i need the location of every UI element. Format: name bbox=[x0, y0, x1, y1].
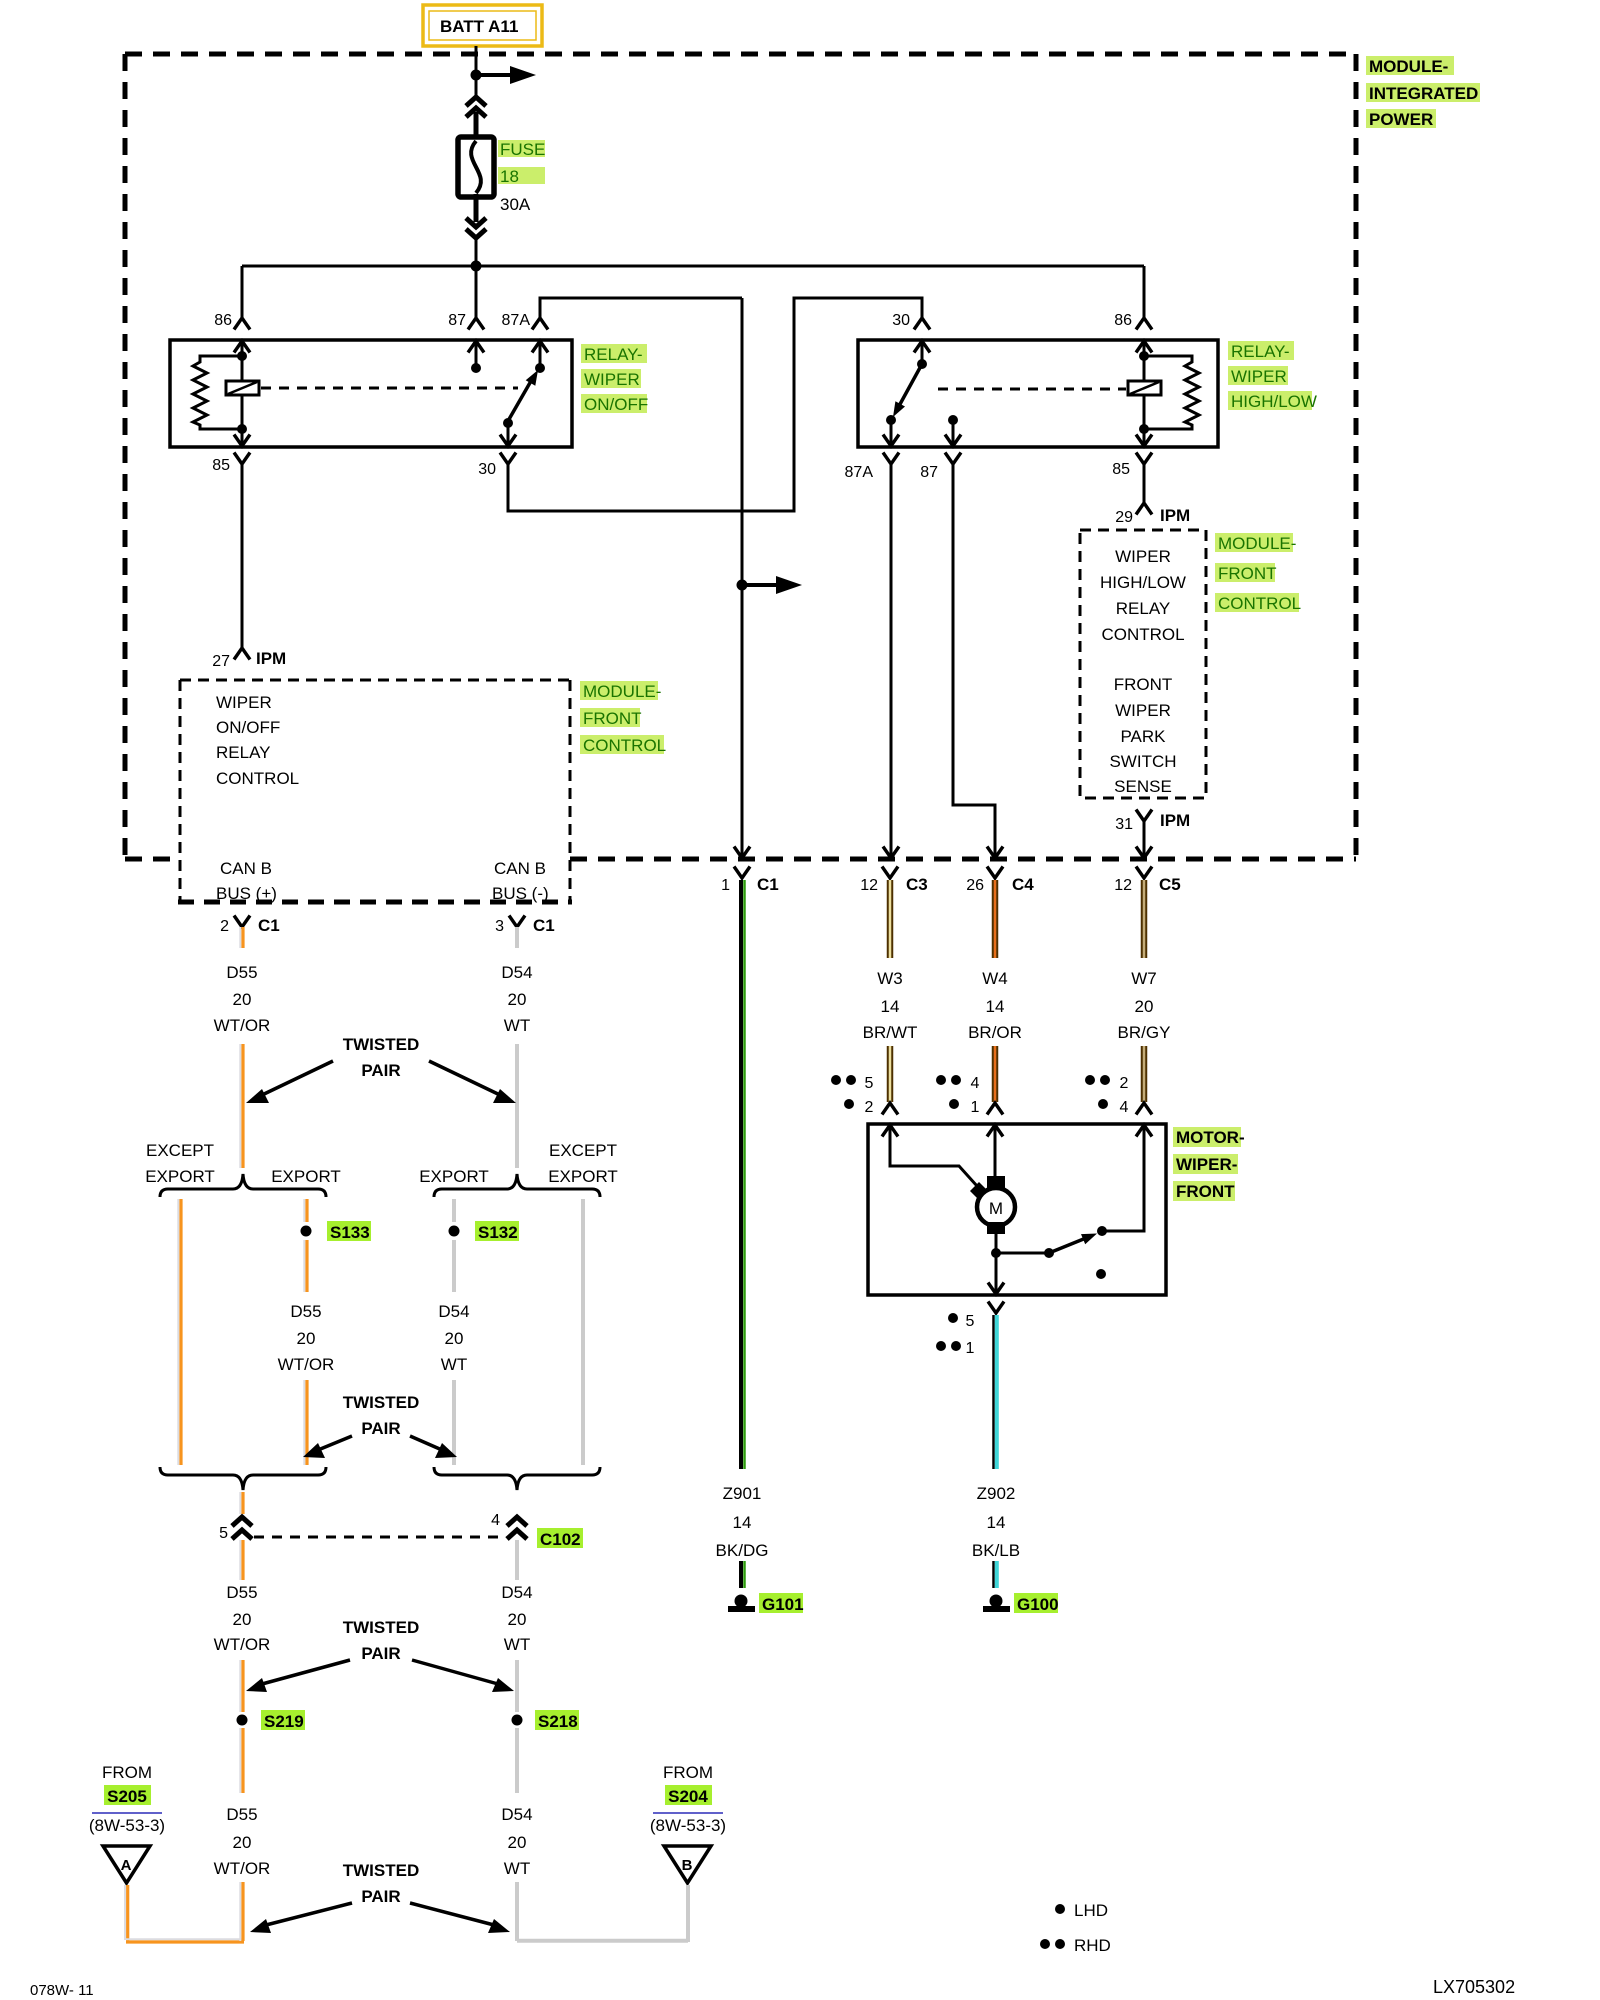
wire bus to pin 86 (high/low relay) bbox=[1143, 266, 1146, 318]
svg-text:D54: D54 bbox=[438, 1302, 469, 1321]
relay K1 RELAY-WIPER ON/OFF box bbox=[170, 340, 572, 447]
wire W4 14 BR/OR (upper) bbox=[992, 880, 999, 958]
svg-text:C5: C5 bbox=[1159, 875, 1181, 894]
svg-text:C1: C1 bbox=[757, 875, 779, 894]
pin 12 connector C3 bbox=[882, 867, 898, 879]
svg-text:HIGH/LOW: HIGH/LOW bbox=[1231, 392, 1317, 411]
wire D54 run to S218 bbox=[515, 1660, 519, 1712]
svg-text:INTEGRATED: INTEGRATED bbox=[1369, 84, 1478, 103]
wire D55 below merge bbox=[240, 1492, 243, 1514]
twisted pair arrow right (2) bbox=[410, 1436, 457, 1458]
wire pin 30 jog to high/low relay bbox=[508, 298, 922, 511]
svg-text:12: 12 bbox=[1114, 877, 1132, 894]
svg-text:27: 27 bbox=[212, 653, 230, 670]
pin 85 connector below box (K2) bbox=[1136, 453, 1152, 465]
pin 30 box-edge arrow (K2) bbox=[914, 341, 930, 362]
junction dot with off-page arrow bbox=[737, 580, 748, 591]
svg-text:26: 26 bbox=[966, 877, 984, 894]
module text CAN B BUS (-) bbox=[492, 859, 549, 903]
svg-text:CONTROL: CONTROL bbox=[1101, 625, 1184, 644]
off-page connector A bbox=[103, 1846, 150, 1883]
svg-text:D54: D54 bbox=[501, 963, 532, 982]
wire pivot to pin 30 bbox=[507, 423, 510, 446]
legend LHD bbox=[1055, 1901, 1108, 1920]
svg-text:S204: S204 bbox=[668, 1787, 708, 1806]
svg-text:D55: D55 bbox=[226, 963, 257, 982]
svg-text:W4: W4 bbox=[982, 969, 1008, 988]
svg-text:W7: W7 bbox=[1131, 969, 1157, 988]
motor box MOTOR-WIPER-FRONT bbox=[868, 1124, 1166, 1295]
svg-text:20: 20 bbox=[233, 1610, 252, 1629]
wire label D54 20 WT (bottom) bbox=[501, 1805, 532, 1878]
wire pin 31 to C5 bbox=[1143, 821, 1146, 857]
svg-text:W3: W3 bbox=[877, 969, 903, 988]
pin 87A connector below box (K2) bbox=[883, 453, 899, 465]
motor pin 5 connector below box bbox=[988, 1302, 1004, 1314]
pin 86 connector bbox=[234, 318, 250, 330]
module text FRONT WIPER PARK SWITCH SENSE bbox=[1109, 675, 1176, 796]
LHD pin marker 5 bbox=[948, 1313, 975, 1330]
park switch arm bbox=[1049, 1234, 1097, 1254]
crossing arrow at C5 bbox=[1136, 847, 1152, 859]
svg-text:86: 86 bbox=[1114, 312, 1132, 329]
twisted pair arrow left (2) bbox=[303, 1436, 352, 1458]
svg-text:D55: D55 bbox=[226, 1583, 257, 1602]
pin 85 connector below box bbox=[234, 453, 250, 465]
park switch contact dot (run) bbox=[1097, 1226, 1107, 1236]
LHD pin marker 4 bbox=[1098, 1099, 1129, 1116]
wire coil to pin 85 bbox=[241, 395, 244, 446]
svg-text:EXPORT: EXPORT bbox=[548, 1167, 618, 1186]
svg-text:12: 12 bbox=[860, 877, 878, 894]
pin 1 connector C1 bbox=[734, 867, 750, 879]
wire D55 export branch (upper) bbox=[304, 1199, 307, 1222]
svg-text:85: 85 bbox=[1112, 461, 1130, 478]
svg-text:PAIR: PAIR bbox=[361, 1419, 400, 1438]
park switch common wire bbox=[996, 1252, 1049, 1255]
wire D55 export branch (lower) bbox=[304, 1380, 307, 1465]
svg-text:WIPER: WIPER bbox=[584, 370, 640, 389]
relay K1 coil bbox=[226, 381, 259, 395]
svg-text:C1: C1 bbox=[258, 916, 280, 935]
svg-text:CAN B: CAN B bbox=[494, 859, 546, 878]
label MODULE-INTEGRATED POWER bbox=[1366, 56, 1480, 129]
svg-text:G101: G101 bbox=[762, 1595, 804, 1614]
svg-text:1: 1 bbox=[966, 1340, 975, 1357]
svg-text:S219: S219 bbox=[264, 1712, 304, 1731]
callout TWISTED PAIR (1) bbox=[343, 1035, 420, 1080]
svg-text:WT: WT bbox=[504, 1016, 530, 1035]
wire D54 export branch (lower) bbox=[452, 1380, 456, 1465]
svg-text:30: 30 bbox=[892, 312, 910, 329]
wire bus to pin 86 bbox=[241, 266, 244, 318]
svg-text:31: 31 bbox=[1115, 816, 1133, 833]
in-line connector C102 (pin 4) bbox=[507, 1517, 527, 1539]
svg-text:Z901: Z901 bbox=[723, 1484, 762, 1503]
module text WIPER HIGH/LOW RELAY CONTROL bbox=[1100, 547, 1186, 644]
relay K2 RELAY-WIPER HIGH/LOW box bbox=[858, 340, 1218, 447]
wire W7 20 BR/GY (upper) bbox=[1141, 880, 1148, 958]
pin 87A box-edge arrow bbox=[532, 341, 548, 366]
svg-text:Z902: Z902 bbox=[977, 1484, 1016, 1503]
svg-text:MODULE-: MODULE- bbox=[1369, 57, 1448, 76]
wire from BATT A11 down bbox=[475, 46, 478, 98]
svg-text:SWITCH: SWITCH bbox=[1109, 752, 1176, 771]
svg-text:FROM: FROM bbox=[663, 1763, 713, 1782]
svg-text:BUS (-): BUS (-) bbox=[492, 884, 549, 903]
svg-text:D55: D55 bbox=[290, 1302, 321, 1321]
junction dot coil bottom bbox=[237, 424, 247, 434]
off-page arrow right bbox=[476, 66, 536, 84]
pin 87 connector below box (K2) bbox=[945, 453, 961, 465]
pin 87 box-edge arrow bbox=[468, 341, 484, 366]
svg-text:POWER: POWER bbox=[1369, 110, 1433, 129]
svg-text:1: 1 bbox=[971, 1099, 980, 1116]
svg-text:G100: G100 bbox=[1017, 1595, 1059, 1614]
svg-text:RELAY: RELAY bbox=[1116, 599, 1171, 618]
fuse F18 30A bbox=[458, 137, 494, 197]
svg-text:RHD: RHD bbox=[1074, 1936, 1111, 1955]
pin 30 box-edge arrow bbox=[500, 435, 516, 447]
svg-text:WT/OR: WT/OR bbox=[214, 1635, 271, 1654]
svg-text:30: 30 bbox=[478, 461, 496, 478]
svg-text:(8W-53-3): (8W-53-3) bbox=[650, 1816, 726, 1835]
svg-text:18: 18 bbox=[500, 167, 519, 186]
wire from fuse to bus bbox=[475, 239, 478, 266]
wire 87A(K2) to C3 bbox=[890, 464, 893, 857]
wire D54 below S218 bbox=[515, 1728, 519, 1793]
callout TWISTED PAIR (4) bbox=[343, 1861, 420, 1906]
motor pin 1 connector bbox=[987, 1103, 1003, 1115]
label G100 bbox=[1014, 1593, 1059, 1614]
wire pin 85 to IPM pin 29 bbox=[1143, 464, 1146, 503]
pin 12 connector C5 bbox=[1136, 867, 1152, 879]
label FROM S204 (8W-53-3) bbox=[650, 1763, 726, 1835]
twisted pair arrow left (3) bbox=[246, 1660, 350, 1692]
label G101 bbox=[759, 1593, 804, 1614]
svg-text:BR/GY: BR/GY bbox=[1118, 1023, 1171, 1042]
svg-text:PAIR: PAIR bbox=[361, 1644, 400, 1663]
connector C102 dashed tie bbox=[254, 1536, 505, 1539]
wire label D55 20 WT/OR (export branch) bbox=[278, 1302, 335, 1374]
wire label W3 14 BR/WT bbox=[863, 969, 918, 1042]
pin 85 box-edge arrow bbox=[234, 435, 250, 447]
svg-text:S133: S133 bbox=[330, 1223, 370, 1242]
svg-text:C4: C4 bbox=[1012, 875, 1034, 894]
svg-text:CONTROL: CONTROL bbox=[583, 736, 666, 755]
svg-text:4: 4 bbox=[971, 1075, 980, 1092]
svg-text:BATT A11: BATT A11 bbox=[440, 17, 518, 36]
svg-text:EXPORT: EXPORT bbox=[419, 1167, 489, 1186]
svg-text:20: 20 bbox=[1135, 997, 1154, 1016]
svg-text:MODULE-: MODULE- bbox=[1218, 534, 1296, 553]
wire 87(K2) to C4 jog bbox=[953, 464, 995, 857]
svg-text:FRONT: FRONT bbox=[583, 709, 642, 728]
svg-text:20: 20 bbox=[445, 1329, 464, 1348]
coil dashed actuation link K2 bbox=[938, 388, 1126, 391]
label MOTOR-WIPER-FRONT bbox=[1173, 1127, 1245, 1201]
connector chevrons below fuse bbox=[466, 218, 486, 238]
pin 2 box-edge arrow + wire to motor brush bbox=[882, 1125, 977, 1186]
svg-text:5: 5 bbox=[865, 1075, 874, 1092]
motor pin 2 connector bbox=[882, 1103, 898, 1115]
pin 87A connector bbox=[532, 318, 548, 330]
svg-text:M: M bbox=[989, 1199, 1003, 1218]
svg-text:ON/OFF: ON/OFF bbox=[584, 395, 648, 414]
brace merge D55 bbox=[160, 1467, 326, 1490]
svg-text:85: 85 bbox=[212, 457, 230, 474]
relay K2 coil bbox=[1128, 381, 1161, 395]
svg-text:RELAY-: RELAY- bbox=[584, 345, 643, 364]
pin 30 connector (high/low relay) bbox=[914, 318, 930, 330]
wire stub to G100 bbox=[994, 1561, 997, 1588]
switch arm K2 bbox=[893, 364, 922, 417]
svg-text:30A: 30A bbox=[500, 195, 531, 214]
svg-text:C102: C102 bbox=[540, 1530, 581, 1549]
module text WIPER ON/OFF RELAY CONTROL bbox=[216, 693, 299, 788]
svg-text:WT/OR: WT/OR bbox=[278, 1355, 335, 1374]
pin 85 box-edge arrow (K2) bbox=[1136, 435, 1152, 447]
junction dot coil top bbox=[237, 351, 247, 361]
svg-text:EXCEPT: EXCEPT bbox=[146, 1141, 214, 1160]
motor ground pin box-edge arrow bbox=[988, 1283, 1004, 1295]
svg-text:LX705302: LX705302 bbox=[1433, 1977, 1515, 1997]
wire D54 below C102 bbox=[515, 1540, 519, 1580]
svg-text:WIPER-: WIPER- bbox=[1176, 1155, 1237, 1174]
crossing arrow at C3 bbox=[883, 847, 899, 859]
contact dot 87 bbox=[471, 363, 481, 373]
pin 87A box-edge arrow (K2) bbox=[883, 435, 899, 447]
svg-text:87A: 87A bbox=[502, 312, 531, 329]
label EXCEPT EXPORT (far left) bbox=[145, 1141, 215, 1186]
pin 86 connector (high/low relay) bbox=[1136, 318, 1152, 330]
svg-text:A: A bbox=[121, 1857, 132, 1874]
wire label D54 20 WT bbox=[501, 963, 532, 1035]
wire label D54 20 WT (below C102) bbox=[501, 1583, 532, 1654]
svg-text:2: 2 bbox=[220, 918, 229, 935]
svg-text:4: 4 bbox=[491, 1512, 500, 1529]
IPM pin 27 connector bbox=[234, 648, 250, 660]
svg-text:86: 86 bbox=[214, 312, 232, 329]
contact dot 87A bbox=[535, 363, 545, 373]
wire D54 stub below pin 3 bbox=[515, 927, 519, 948]
svg-text:BR/OR: BR/OR bbox=[968, 1023, 1022, 1042]
svg-text:29: 29 bbox=[1115, 509, 1133, 526]
svg-text:4: 4 bbox=[1120, 1099, 1129, 1116]
label RELAY-WIPER HIGH/LOW bbox=[1228, 341, 1317, 411]
svg-text:FUSE: FUSE bbox=[500, 140, 545, 159]
module box MODULE-FRONT CONTROL (left, dashed) bbox=[178, 680, 572, 902]
wire (thick) below fuse bbox=[474, 194, 479, 222]
legend RHD bbox=[1040, 1936, 1111, 1955]
pin 2 connector C1 bbox=[234, 916, 250, 928]
twisted pair arrow right (3) bbox=[412, 1660, 514, 1692]
svg-text:TWISTED: TWISTED bbox=[343, 1035, 420, 1054]
svg-text:WIPER: WIPER bbox=[1231, 367, 1287, 386]
IPM pin 29 connector bbox=[1136, 503, 1152, 515]
splice S133 bbox=[301, 1226, 312, 1237]
svg-text:RELAY: RELAY bbox=[216, 743, 271, 762]
wire Z901 14 BK/DG bbox=[741, 880, 745, 1469]
svg-text:CONTROL: CONTROL bbox=[1218, 594, 1301, 613]
svg-text:EXPORT: EXPORT bbox=[271, 1167, 341, 1186]
label MODULE-FRONT CONTROL (right) bbox=[1215, 533, 1301, 613]
switch pivot dot K2 bbox=[917, 359, 927, 369]
wire pin 85 to IPM pin 27 bbox=[241, 464, 244, 648]
wire D55 run to S219 bbox=[240, 1660, 243, 1712]
svg-text:PARK: PARK bbox=[1120, 727, 1166, 746]
svg-text:SENSE: SENSE bbox=[1114, 777, 1172, 796]
svg-text:20: 20 bbox=[297, 1329, 316, 1348]
svg-text:87: 87 bbox=[448, 312, 466, 329]
wire 87 contact to edge bbox=[952, 420, 955, 446]
pin 87 box-edge arrow (K2) bbox=[945, 435, 961, 447]
wire (thick) into fuse bbox=[474, 112, 479, 140]
svg-text:D54: D54 bbox=[501, 1805, 532, 1824]
fuse label FUSE 18 30A bbox=[498, 140, 545, 214]
svg-text:5: 5 bbox=[219, 1525, 228, 1542]
svg-text:3: 3 bbox=[495, 918, 504, 935]
wire D54 export branch (upper) bbox=[452, 1199, 456, 1222]
splice S219 bbox=[237, 1715, 248, 1726]
pin 86 box-edge arrow (K2) bbox=[1136, 341, 1152, 381]
svg-text:FRONT: FRONT bbox=[1176, 1182, 1235, 1201]
wire label D55 20 WT/OR bbox=[214, 963, 271, 1035]
splice S132 bbox=[449, 1226, 460, 1237]
resistor (relay K2 coil shunt) bbox=[1144, 356, 1199, 429]
wire D55 bottom run bbox=[240, 1882, 243, 1941]
switch pivot dot bbox=[503, 418, 513, 428]
park switch contact dot (park, open) bbox=[1096, 1269, 1106, 1279]
svg-text:WT/OR: WT/OR bbox=[214, 1859, 271, 1878]
wire label D54 20 WT (export branch) bbox=[438, 1302, 469, 1374]
junction dot bbox=[471, 70, 482, 81]
svg-text:S132: S132 bbox=[478, 1223, 518, 1242]
pin 4 box-edge arrow + wire to switch contact bbox=[1106, 1125, 1152, 1231]
LHD pin marker 2 bbox=[844, 1099, 874, 1116]
contact dot 87 (K2) bbox=[948, 415, 958, 425]
wire label D55 20 WT/OR (bottom) bbox=[214, 1805, 271, 1878]
svg-text:WIPER: WIPER bbox=[1115, 701, 1171, 720]
ground G100 bbox=[983, 1595, 1010, 1613]
module text CAN B BUS (+) bbox=[216, 859, 277, 903]
wire 87A to C1 drop (x=742) bbox=[741, 298, 744, 857]
svg-text:IPM: IPM bbox=[1160, 506, 1190, 525]
wire from connector A bbox=[125, 1885, 244, 1942]
svg-text:EXPORT: EXPORT bbox=[145, 1167, 215, 1186]
pin 26 connector C4 bbox=[987, 867, 1003, 879]
crossing arrow at C4 bbox=[987, 847, 1003, 859]
svg-text:WIPER: WIPER bbox=[216, 693, 272, 712]
wire D54 upper run bbox=[515, 1044, 519, 1168]
wire D55 stub below pin 2 bbox=[240, 927, 243, 948]
module box MODULE-INTEGRATED POWER (dashed) bbox=[125, 54, 1356, 859]
brace split D55 bbox=[160, 1174, 326, 1197]
svg-text:D54: D54 bbox=[501, 1583, 532, 1602]
wire D55 below S219 bbox=[240, 1728, 243, 1793]
svg-text:IPM: IPM bbox=[256, 649, 286, 668]
svg-text:WT: WT bbox=[504, 1635, 530, 1654]
pin 3 connector C1 bbox=[509, 916, 525, 928]
wire D54 export branch (below splice) bbox=[452, 1240, 456, 1292]
wire label D55 20 WT/OR (below C102) bbox=[214, 1583, 271, 1654]
RHD pin marker 2 bbox=[1085, 1075, 1129, 1092]
svg-text:BK/DG: BK/DG bbox=[716, 1541, 769, 1560]
connector chevrons above fuse bbox=[466, 97, 486, 117]
contact dot 87A (K2) bbox=[886, 415, 896, 425]
svg-text:IPM: IPM bbox=[1160, 811, 1190, 830]
motor M1 wiper motor bbox=[970, 1176, 1015, 1234]
svg-text:1: 1 bbox=[721, 877, 730, 894]
svg-text:TWISTED: TWISTED bbox=[343, 1393, 420, 1412]
wire Z902 14 BK/LB bbox=[994, 1315, 997, 1469]
wire 87A contact to edge bbox=[890, 420, 893, 446]
off-page connector B bbox=[664, 1846, 711, 1883]
junction dot coil top K2 bbox=[1139, 351, 1149, 361]
wire label Z901 14 BK/DG bbox=[716, 1480, 769, 1560]
wire D54 bottom run bbox=[515, 1882, 519, 1941]
wire W7 (lower) bbox=[1141, 1046, 1148, 1102]
junction dot bbox=[991, 1248, 1001, 1258]
svg-text:14: 14 bbox=[733, 1513, 752, 1532]
wire label Z902 14 BK/LB bbox=[970, 1480, 1022, 1560]
wire D54 except-export branch bbox=[581, 1199, 585, 1465]
wire coil to pin 85 K2 bbox=[1143, 395, 1146, 446]
svg-text:FROM: FROM bbox=[102, 1763, 152, 1782]
svg-text:BUS (+): BUS (+) bbox=[216, 884, 277, 903]
pin 1 box-edge arrow + wire to motor bbox=[987, 1125, 1003, 1176]
pin 87 connector bbox=[468, 318, 484, 330]
svg-text:87: 87 bbox=[920, 464, 938, 481]
coil dashed actuation link bbox=[261, 387, 518, 390]
svg-text:2: 2 bbox=[1120, 1075, 1129, 1092]
junction dot coil bottom K2 bbox=[1139, 424, 1149, 434]
callout TWISTED PAIR (2) bbox=[343, 1393, 420, 1438]
pin 86 box-edge arrow bbox=[234, 341, 250, 381]
junction dot at bus bbox=[471, 261, 482, 272]
svg-text:14: 14 bbox=[881, 997, 900, 1016]
svg-text:14: 14 bbox=[987, 1513, 1006, 1532]
IPM pin 31 connector bbox=[1136, 810, 1152, 822]
svg-text:WT/OR: WT/OR bbox=[214, 1016, 271, 1035]
svg-text:FRONT: FRONT bbox=[1218, 564, 1277, 583]
label FROM S205 (8W-53-3) bbox=[89, 1763, 165, 1835]
label C102 bbox=[537, 1528, 583, 1549]
svg-text:BK/LB: BK/LB bbox=[972, 1541, 1020, 1560]
ground G101 bbox=[728, 1595, 755, 1613]
svg-text:20: 20 bbox=[508, 1833, 527, 1852]
svg-text:CONTROL: CONTROL bbox=[216, 769, 299, 788]
twisted pair arrow right (1) bbox=[429, 1061, 516, 1103]
svg-text:FRONT: FRONT bbox=[1114, 675, 1173, 694]
svg-text:RELAY-: RELAY- bbox=[1231, 342, 1290, 361]
RHD pin marker 1 bbox=[936, 1340, 975, 1357]
LHD pin marker 1 bbox=[949, 1099, 980, 1116]
brace split D54 bbox=[434, 1174, 600, 1197]
svg-text:BR/WT: BR/WT bbox=[863, 1023, 918, 1042]
wire D55 upper run bbox=[240, 1044, 243, 1168]
svg-text:B: B bbox=[682, 1857, 693, 1874]
switch arm K1 bbox=[508, 370, 538, 421]
svg-text:WT: WT bbox=[441, 1355, 467, 1374]
svg-text:WIPER: WIPER bbox=[1115, 547, 1171, 566]
label EXCEPT EXPORT (far right) bbox=[548, 1141, 618, 1186]
RHD pin marker 4 bbox=[936, 1075, 980, 1092]
svg-text:87A: 87A bbox=[845, 464, 874, 481]
svg-text:14: 14 bbox=[986, 997, 1005, 1016]
callout TWISTED PAIR (3) bbox=[343, 1618, 420, 1663]
svg-text:(8W-53-3): (8W-53-3) bbox=[89, 1816, 165, 1835]
